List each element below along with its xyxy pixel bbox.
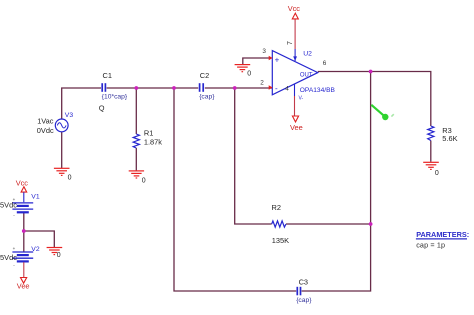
svg-text:R1: R1 bbox=[144, 129, 153, 138]
svg-text:5.6K: 5.6K bbox=[442, 134, 457, 143]
svg-text:Vee: Vee bbox=[17, 282, 30, 291]
svg-text:4: 4 bbox=[285, 86, 289, 93]
svg-text:15Vdc: 15Vdc bbox=[0, 201, 17, 210]
svg-text:+: + bbox=[13, 246, 16, 251]
svg-text:-: - bbox=[275, 84, 278, 93]
svg-text:0: 0 bbox=[247, 70, 251, 77]
svg-text:OPA134/BB: OPA134/BB bbox=[300, 87, 336, 94]
svg-text:+: + bbox=[275, 55, 280, 64]
svg-text:15Vdc: 15Vdc bbox=[0, 253, 17, 262]
svg-text:C1: C1 bbox=[103, 71, 112, 80]
svg-text:0: 0 bbox=[142, 178, 146, 185]
svg-text:Vcc: Vcc bbox=[16, 179, 29, 188]
svg-text:V3: V3 bbox=[65, 112, 74, 119]
svg-text:OUT: OUT bbox=[300, 72, 313, 78]
svg-text:135K: 135K bbox=[272, 236, 289, 245]
svg-text:Vee: Vee bbox=[290, 123, 303, 132]
svg-text:PARAMETERS:: PARAMETERS: bbox=[416, 230, 469, 239]
svg-text:0: 0 bbox=[435, 170, 439, 177]
svg-text:U2: U2 bbox=[303, 51, 312, 58]
svg-text:1Vac: 1Vac bbox=[37, 117, 54, 126]
svg-text:C3: C3 bbox=[299, 278, 308, 287]
svg-text:V1: V1 bbox=[31, 193, 40, 200]
svg-text:-: - bbox=[13, 213, 15, 218]
svg-text:V2: V2 bbox=[31, 246, 40, 253]
svg-text:Q: Q bbox=[99, 103, 105, 112]
svg-text:0: 0 bbox=[57, 252, 61, 259]
svg-text:V-: V- bbox=[299, 95, 304, 101]
svg-text:-: - bbox=[13, 262, 15, 267]
svg-text:3: 3 bbox=[262, 48, 266, 55]
svg-text:{cap}: {cap} bbox=[296, 297, 312, 304]
svg-text:7: 7 bbox=[287, 41, 294, 45]
svg-text:Vcc: Vcc bbox=[288, 4, 301, 13]
svg-text:{10*cap}: {10*cap} bbox=[102, 93, 128, 100]
svg-text:C2: C2 bbox=[200, 71, 209, 80]
svg-text:0Vdc: 0Vdc bbox=[37, 126, 54, 135]
svg-text:1.87k: 1.87k bbox=[144, 137, 162, 146]
svg-text:2: 2 bbox=[260, 79, 264, 86]
svg-text:{cap}: {cap} bbox=[199, 93, 215, 100]
svg-text:6: 6 bbox=[323, 60, 327, 67]
svg-text:0: 0 bbox=[68, 175, 72, 182]
svg-text:cap = 1p: cap = 1p bbox=[416, 241, 445, 250]
svg-text:R2: R2 bbox=[272, 203, 281, 212]
